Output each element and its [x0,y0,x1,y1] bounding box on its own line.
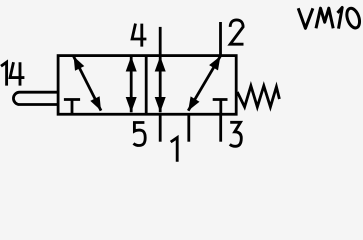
label 14 digit 4 [10,62,24,85]
arrowhead vertical right bottom [155,97,166,112]
label port 1 [171,138,178,162]
blocked port T (right cell) [213,100,228,114]
return spring [237,86,279,107]
blocked port T (left cell) [64,100,80,114]
vertical flow arrow shaft (right cell) [159,56,162,112]
arrowhead diagonal left bottom [90,96,101,110]
vertical flow arrow shaft (left cell) [130,56,133,112]
position divider [145,56,148,115]
wire port 5 [159,114,162,142]
arrowhead vertical left top [126,56,137,71]
diagonal flow arrow shaft (right cell) [188,56,220,111]
label port 4 [132,24,146,47]
arrowhead vertical right top [155,56,166,71]
label port 2 [230,20,243,44]
wire port 2 [219,22,222,56]
pilot port 14 capsule [13,92,58,104]
label port 3 [230,122,242,146]
arrowhead diagonal left top [74,56,85,70]
arrowhead vertical left bottom [126,97,137,112]
diagonal flow arrow shaft (left cell) [74,56,101,110]
wire port 4 [159,27,162,56]
wire port 3 [219,114,222,142]
label VM10 [298,7,362,30]
valve body (two-position box) [58,56,236,115]
label port 5 [134,123,146,146]
arrowhead diagonal right bottom [188,96,199,110]
arrowhead diagonal right top [209,56,220,70]
label 14 digit 1 [1,62,7,85]
wire port 1 [187,114,190,142]
